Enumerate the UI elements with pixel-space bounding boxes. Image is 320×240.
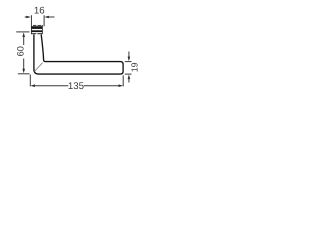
dim 19 top arrow — [128, 52, 130, 58]
corner fillet line — [34, 63, 42, 72]
dim 19 bottom arrow — [128, 75, 131, 80]
svg-text:16: 16 — [34, 6, 45, 17]
dim 60 line + arrows — [22, 32, 25, 37]
rose left edge — [30, 15, 32, 34]
dim 135 line + arrows — [30, 84, 35, 87]
handle outline — [34, 35, 123, 75]
dim 60 top extension line — [16, 31, 29, 33]
dim 16 extension line right — [43, 15, 45, 26]
rose band A — [32, 26, 43, 29]
rose right edge — [41, 25, 43, 34]
dim 19 bottom extension line — [125, 73, 132, 75]
dim 60 bottom extension line — [18, 73, 30, 75]
dim 16 line + arrows — [25, 16, 28, 18]
rose band B — [32, 30, 43, 32]
dim 19 top extension line — [125, 61, 132, 63]
rose top line — [33, 24, 36, 26]
dim 135 right extension line — [122, 75, 124, 86]
svg-text:135: 135 — [68, 81, 84, 92]
rose bottom line — [32, 33, 37, 34]
svg-text:60: 60 — [16, 46, 26, 56]
svg-text:19: 19 — [130, 62, 140, 72]
dim 135 left extension line — [29, 75, 31, 87]
